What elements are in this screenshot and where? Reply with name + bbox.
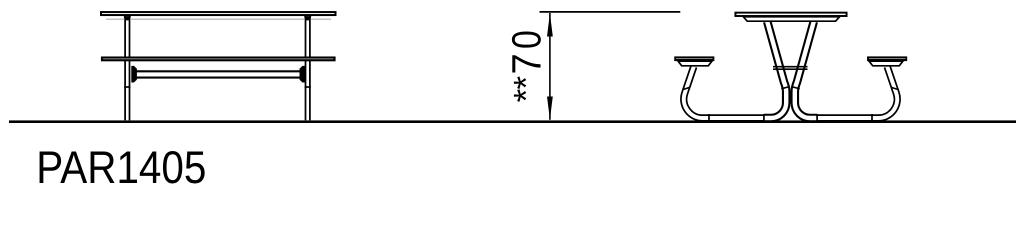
left seat slab — [675, 57, 713, 60]
table support frame (end view) — [743, 17, 839, 21]
weld tick left foot inner — [763, 114, 765, 121]
faint table frame line under top — [106, 18, 331, 20]
dimension text digit 7 (rotated) — [504, 53, 550, 74]
tabletop slab (side view) — [101, 12, 336, 15]
extension line at table top level — [540, 11, 681, 13]
right seat post and foot tube — [817, 67, 897, 119]
left V-leg tube bore — [764, 22, 786, 119]
left V-leg tube with centre bend — [764, 22, 786, 119]
arrowhead bottom — [547, 97, 553, 120]
tabletop slab (end view) — [735, 13, 846, 16]
vertical dimension line — [549, 13, 551, 120]
left leg to tabletop joint wedge — [124, 16, 131, 20]
left seat post and foot tube — [684, 67, 764, 119]
svg-text:PAR1405: PAR1405 — [36, 142, 206, 193]
stretcher end bracket right — [300, 66, 306, 83]
dimension text digit 0 (rotated) — [504, 30, 550, 49]
svg-text:**: ** — [507, 76, 546, 103]
weld tick left foot outer — [708, 114, 710, 121]
right leg tube (side view) — [306, 16, 310, 120]
svg-text:7: 7 — [504, 53, 550, 74]
stretcher end bracket left — [131, 66, 137, 83]
right V-leg tube with centre bend — [795, 22, 817, 119]
right V-leg tube bore — [795, 22, 817, 119]
bench slab (side view) — [102, 58, 335, 61]
right seat slab — [868, 57, 906, 60]
weld tick right foot outer — [871, 114, 873, 121]
stretcher tube between legs — [136, 71, 300, 77]
weld tick on left leg — [124, 86, 130, 88]
title text PAR1405 — [36, 142, 206, 193]
right leg to tabletop joint wedge — [304, 16, 311, 20]
weld tick on left V-leg — [781, 87, 789, 89]
weld tick on right seat post — [891, 87, 898, 89]
right seat support frame — [869, 61, 903, 66]
arrowhead top — [547, 13, 553, 36]
weld tick on right leg — [305, 86, 311, 88]
left leg tube (side view) — [125, 16, 129, 120]
ground line — [9, 120, 1016, 123]
svg-text:0: 0 — [504, 30, 550, 49]
weld tick on right V-leg — [792, 87, 800, 89]
left seat support frame — [678, 61, 712, 66]
crossbar between V-legs — [773, 67, 808, 70]
dimension text asterisks (rotated) — [507, 76, 546, 103]
weld tick on left seat post — [682, 87, 689, 89]
weld tick right foot inner — [816, 114, 818, 121]
